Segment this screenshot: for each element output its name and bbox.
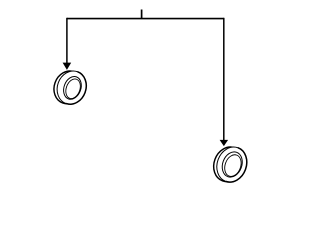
arrowhead right <box>220 140 229 146</box>
grommet 2 (right seal) <box>209 142 252 187</box>
wire: left vertical <box>66 18 68 63</box>
grommet 1 (left seal) <box>49 66 90 109</box>
arrowhead left <box>63 63 72 70</box>
wire: right vertical <box>223 18 225 141</box>
label leader tick <box>141 10 143 19</box>
wire: bracket horizontal <box>67 18 224 20</box>
